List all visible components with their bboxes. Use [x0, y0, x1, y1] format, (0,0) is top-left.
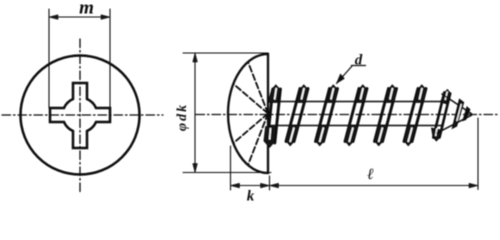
svg-text:m: m: [79, 0, 94, 19]
phi-dk extension line top: [183, 52, 268, 54]
recess hidden fan line up60: [248, 62, 268, 114]
phillips recess outline: [50, 83, 110, 148]
screw axis centerline (side view): [196, 114, 500, 116]
thread ridge 1: [286, 85, 309, 146]
dimension m: extension lines: [48, 9, 50, 108]
thread root line bottom: [268, 125, 443, 127]
svg-text:k: k: [247, 189, 255, 203]
l extension line right: [477, 118, 479, 190]
dimension m: dimension line: [49, 16, 110, 18]
head outline (side view, dome + flat face): [228, 54, 268, 173]
svg-text:d: d: [355, 53, 363, 69]
dimension m: arrowheads: [49, 15, 58, 20]
thread ridge 5: [404, 85, 427, 146]
l dimension line: [270, 185, 479, 187]
recess hidden fan line down60: [248, 114, 268, 166]
tip taper bottom line: [437, 115, 472, 133]
tip taper top line: [442, 94, 472, 114]
leader line for d: [337, 66, 353, 84]
head circle (front view): [21, 56, 140, 175]
recess hidden fan line down30: [234, 114, 269, 144]
svg-text:φdk: φdk: [175, 103, 190, 131]
thread ridge 4: [374, 85, 397, 146]
thread ridge at head face: [264, 85, 281, 148]
phi-dk extension line bottom: [183, 172, 271, 174]
centerline horizontal left view: [2, 114, 163, 116]
centerline vertical left view: [79, 39, 81, 193]
tip small ridge a: [453, 100, 464, 129]
phi-dk dimension line: [194, 53, 196, 173]
thread ridge 2: [315, 85, 338, 146]
tip small ridge b: [463, 107, 470, 121]
k extension line left: [230, 146, 232, 190]
svg-text:ℓ: ℓ: [367, 166, 374, 183]
thread root line top: [268, 101, 446, 103]
thread ridge 3: [345, 85, 368, 146]
k dimension line: [231, 185, 270, 187]
recess hidden fan line up30: [234, 84, 269, 114]
k / l shared extension line: [269, 176, 271, 190]
thread ridge 6 (taper): [432, 90, 451, 142]
